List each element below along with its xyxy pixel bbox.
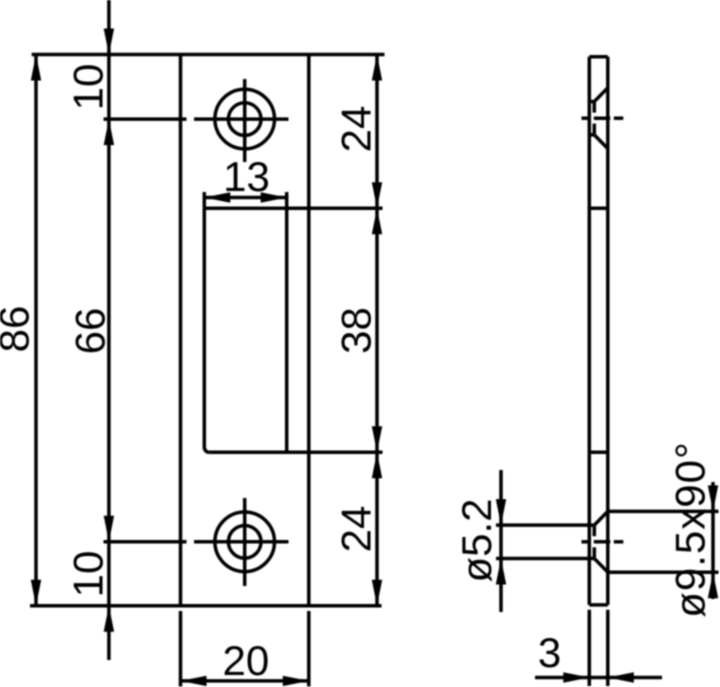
dimension 20 extension line right (307, 611, 311, 687)
top 24 arrow up (372, 55, 382, 81)
bottom 10 arrow up (104, 606, 114, 632)
side profile left edge (588, 57, 592, 605)
bottom countersunk hole: cone lower diagonal (594, 558, 608, 572)
side profile bottom edge (589, 603, 608, 607)
top countersunk hole: axis centerline (582, 116, 591, 120)
dimension 5.2 line (499, 470, 503, 612)
top countersunk hole: bore top (589, 100, 594, 104)
dimension 9.5 arrow up (708, 572, 718, 598)
top countersunk hole: bore bottom (589, 133, 594, 137)
svg-text:ø9.5x90°: ø9.5x90° (667, 441, 714, 618)
bottom hole vertical centerline (243, 498, 247, 586)
dimension 66 arrow up (104, 119, 114, 145)
dimension 86 arrow down (31, 580, 41, 606)
dimension 13 arrow right (261, 192, 287, 202)
top countersunk hole: transition edge (593, 102, 597, 113)
bottom countersunk hole: transition edge (593, 526, 597, 536)
top 10 arrow down (104, 29, 114, 55)
bottom countersunk hole: bore top (589, 523, 594, 527)
bottom 24 arrow down (372, 580, 382, 606)
slot bottom edge in side view (589, 451, 608, 455)
dimension 5.2 arrow down (496, 499, 506, 525)
svg-text:13: 13 (223, 153, 270, 200)
dimension 20 extension line left (179, 611, 183, 687)
top countersunk hole: cone upper diagonal (594, 88, 608, 102)
dimension 3 extension line left (588, 610, 592, 686)
dimension 3 arrow left-pointing (608, 672, 634, 682)
side profile right edge (606, 57, 610, 605)
dimension 24/38/24 line (375, 55, 379, 606)
bottom hole outer circle (215, 512, 275, 572)
top countersunk hole: cone lower diagonal (594, 135, 608, 149)
top hole horizontal centerline (104, 117, 187, 121)
dimension 13 arrow left (204, 192, 230, 202)
dimension 13 extension line left (203, 192, 207, 208)
dimension 66 arrow down (104, 516, 114, 542)
dimension 38 arrow up (372, 208, 382, 234)
dimension 3 extension line right (606, 610, 610, 686)
dimension 38 arrow down (372, 426, 382, 452)
svg-text:10: 10 (65, 64, 112, 111)
plate bottom edge / extension line (30, 604, 382, 608)
cutout left edge with rounded bottom corner (204, 208, 209, 452)
dimension 20 arrow left (181, 676, 207, 686)
dimension 86 line (34, 55, 38, 606)
dimension 9.5 extension line bottom (608, 570, 719, 574)
dimension 13 extension line right (285, 192, 289, 208)
svg-text:ø5.2: ø5.2 (453, 498, 500, 582)
dimension 5.2 extension line top (496, 523, 589, 527)
dimension 9.5 extension line top (608, 510, 719, 514)
top hole outer circle (215, 89, 275, 149)
side profile top edge (589, 55, 608, 59)
bottom countersunk hole: bore bottom (589, 557, 594, 561)
svg-text:3: 3 (538, 629, 561, 676)
plate left edge (179, 55, 183, 606)
svg-text:38: 38 (333, 307, 380, 354)
bottom countersunk hole: cone upper diagonal (594, 511, 608, 525)
svg-text:10: 10 (65, 551, 112, 598)
dimension 13 line (204, 196, 286, 200)
dimension 86 arrow up (31, 55, 41, 81)
top 24 arrow down (372, 182, 382, 208)
dimension 9.5 line (711, 482, 715, 599)
slot top edge in side view (589, 207, 608, 211)
dimension 20 line (181, 679, 309, 683)
cutout bottom edge / extension line (209, 451, 382, 455)
plate right edge (307, 55, 311, 606)
dimension 3 line (535, 676, 662, 680)
svg-text:24: 24 (333, 506, 380, 553)
dimension 5.2 extension line bottom (496, 557, 589, 561)
svg-text:86: 86 (0, 306, 38, 353)
svg-text:20: 20 (223, 637, 270, 684)
top hole inner circle (228, 103, 261, 136)
bottom hole horizontal centerline (104, 540, 187, 544)
dimension 20 arrow right (283, 676, 309, 686)
plate top edge / extension line (32, 53, 385, 57)
dimension 9.5 arrow down (708, 485, 718, 511)
bottom 24 arrow up (372, 452, 382, 478)
dimension 10/66/10 line (107, 0, 111, 660)
cutout right edge (285, 208, 289, 452)
dimension 3 arrow right-pointing (563, 672, 589, 682)
svg-text:24: 24 (333, 106, 380, 153)
bottom hole inner circle (228, 526, 261, 559)
dimension 5.2 arrow up (496, 558, 506, 584)
top hole vertical centerline (243, 79, 247, 162)
cutout top edge / extension line (204, 207, 382, 211)
svg-text:66: 66 (67, 308, 114, 355)
bottom countersunk hole: axis centerline (582, 540, 591, 544)
